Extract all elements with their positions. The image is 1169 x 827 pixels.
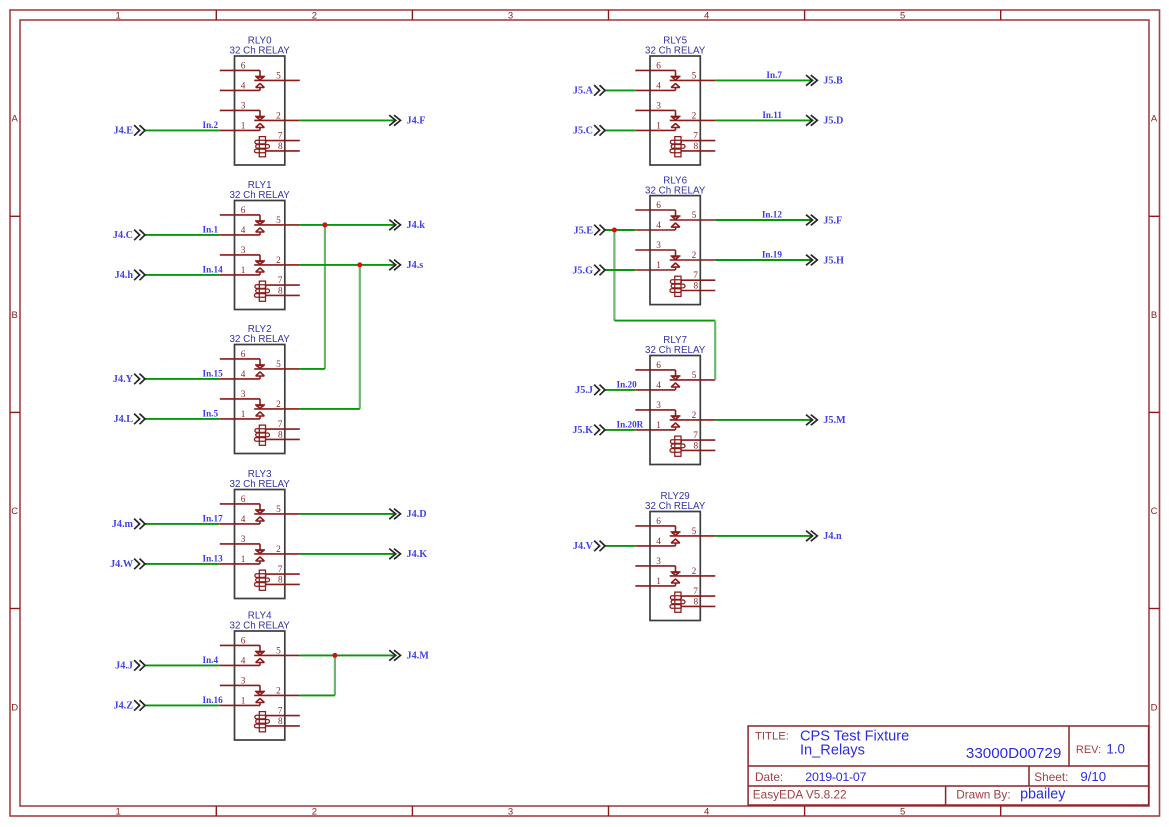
svg-text:3: 3 [656, 401, 661, 411]
svg-text:In.20R: In.20R [617, 419, 644, 429]
svg-text:J4.h: J4.h [115, 270, 134, 281]
relay RLY4 32 Ch RELAY [220, 611, 300, 740]
RLY6 pin 5 common [670, 219, 716, 221]
port J5.D (output) [806, 115, 843, 127]
RLY29 coil [675, 592, 681, 612]
svg-text:7: 7 [278, 565, 283, 575]
RLY0 pin 6 [220, 69, 260, 71]
svg-text:3: 3 [656, 557, 661, 567]
RLY0 pin 8 [266, 150, 299, 152]
RLY6 body box [650, 196, 700, 305]
port J4.n (output) [806, 531, 842, 543]
RLY4 NC contact arrow [255, 690, 265, 692]
svg-text:J4.m: J4.m [112, 519, 134, 530]
RLY5 pin 1 [635, 129, 675, 131]
port J4.D (output) [389, 509, 426, 521]
wire net J4.K from RLY3 pin 2 [300, 553, 396, 555]
RLY2 pin 1 [220, 418, 260, 420]
RLY1 pin 4 [220, 234, 260, 236]
svg-text:8: 8 [694, 282, 699, 292]
svg-text:J5.A: J5.A [573, 86, 594, 97]
svg-text:In.15: In.15 [203, 368, 224, 378]
wire In.1 from J4.C to RLY1 pin 4 [145, 234, 220, 236]
port J4.W (input) [110, 559, 145, 571]
svg-text:3: 3 [656, 241, 661, 251]
RLY7 body box [650, 356, 700, 465]
RLY4 pin 1 [220, 704, 260, 706]
port J4.E (input) [113, 125, 145, 137]
svg-text:J5.K: J5.K [572, 425, 593, 436]
svg-text:2: 2 [276, 400, 281, 410]
RLY1 coil [259, 281, 265, 301]
RLY3 NC contact arrow [255, 509, 265, 511]
relay RLY29 32 Ch RELAY [635, 491, 715, 620]
RLY6 coil [675, 276, 681, 296]
RLY0 coil [259, 137, 265, 157]
svg-text:7: 7 [278, 707, 283, 717]
wire net J4.M stub at RLY4 pin 2 [300, 694, 335, 696]
RLY7 NC contact arrow [671, 375, 681, 377]
RLY7 pin 4 [635, 389, 675, 391]
svg-text:4: 4 [656, 81, 661, 91]
RLY7 pin 8 [682, 449, 715, 451]
svg-text:7: 7 [693, 431, 698, 441]
svg-text:C: C [11, 506, 18, 517]
RLY4 NO contact arrow [256, 658, 265, 662]
RLY1 pin 5 common [254, 224, 300, 226]
port J5.C (input) [573, 125, 605, 137]
RLY6 pin 1 [635, 269, 675, 271]
RLY4 pin 5 common [254, 654, 300, 656]
svg-text:5: 5 [900, 807, 905, 818]
RLY5 coil [675, 137, 681, 157]
RLY2 NO contact arrow [256, 372, 265, 376]
svg-text:2019-01-07: 2019-01-07 [805, 770, 866, 784]
svg-text:In.2: In.2 [203, 120, 219, 130]
RLY3 pin 5 common [254, 513, 300, 515]
wire J5.C to RLY5 pin 1 [605, 129, 635, 131]
port J5.B (output) [806, 75, 843, 87]
RLY4 coil [259, 712, 265, 732]
svg-text:J5.B: J5.B [823, 76, 843, 87]
svg-text:2: 2 [692, 411, 697, 421]
RLY0 pin 2 common [254, 119, 300, 121]
RLY29 NC contact arrow [671, 571, 681, 573]
svg-text:In.4: In.4 [203, 655, 219, 665]
RLY29 pin 6 [635, 525, 675, 527]
svg-text:3: 3 [656, 101, 661, 111]
wire net In.7 from RLY5 pin 5 [715, 79, 812, 81]
svg-text:In.12: In.12 [762, 210, 783, 220]
RLY7 pin 1 [635, 429, 675, 431]
svg-text:5: 5 [692, 371, 697, 381]
svg-text:5: 5 [276, 646, 281, 656]
svg-text:2: 2 [276, 686, 281, 696]
svg-text:D: D [11, 703, 18, 714]
RLY4 NO contact arrow [256, 698, 265, 702]
svg-text:1: 1 [241, 121, 246, 131]
relay RLY7 32 Ch RELAY [635, 335, 715, 464]
RLY6 pin 7 [682, 279, 716, 281]
svg-text:7: 7 [278, 420, 283, 430]
svg-text:7: 7 [278, 132, 283, 142]
frame row tick (left) [10, 608, 20, 610]
svg-text:6: 6 [241, 350, 246, 360]
svg-text:In.1: In.1 [203, 224, 219, 234]
svg-text:3: 3 [241, 101, 246, 111]
wire net J4.D from RLY3 pin 5 [300, 513, 396, 515]
port J4.J (input) [115, 660, 145, 672]
RLY4 pin 3 [220, 684, 260, 686]
RLY1 pin 6 [220, 214, 260, 216]
frame column tick (bottom) [804, 806, 806, 816]
RLY3 NO contact arrow [256, 557, 265, 561]
svg-text:6: 6 [241, 61, 246, 71]
RLY2 NC contact arrow [255, 404, 265, 406]
svg-text:8: 8 [278, 430, 283, 440]
frame column tick (top) [1000, 10, 1002, 20]
svg-text:J4.n: J4.n [823, 531, 842, 542]
svg-text:4: 4 [241, 370, 246, 380]
svg-text:8: 8 [278, 286, 283, 296]
svg-text:7: 7 [278, 276, 283, 286]
RLY1 pin 2 common [254, 264, 300, 266]
port J5.E (input) [573, 225, 605, 237]
svg-text:5: 5 [276, 505, 281, 515]
svg-text:3: 3 [241, 390, 246, 400]
svg-text:7: 7 [693, 132, 698, 142]
wire net J4.k stub at RLY2 pin 5 [300, 368, 325, 370]
frame row tick (left) [10, 411, 20, 413]
svg-text:J4.J: J4.J [115, 661, 133, 672]
svg-text:4: 4 [656, 221, 661, 231]
wire net J4.F from RLY0 pin 2 [300, 119, 396, 121]
RLY3 pin 7 [266, 573, 300, 575]
wire In.4 from J4.J to RLY4 pin 4 [145, 664, 220, 666]
RLY5 pin 7 [682, 140, 716, 142]
RLY6 pin 3 [635, 249, 675, 251]
svg-text:In.14: In.14 [203, 264, 224, 274]
RLY3 pin 1 [220, 563, 260, 565]
RLY1 pin 1 [220, 274, 260, 276]
RLY29 pin 7 [682, 595, 716, 597]
svg-text:8: 8 [278, 717, 283, 727]
wire J4.V to RLY29 pin 4 [605, 545, 635, 547]
svg-text:1: 1 [241, 555, 246, 565]
svg-text:J5.M: J5.M [823, 415, 846, 426]
svg-text:J4.K: J4.K [407, 549, 428, 560]
svg-text:32 Ch RELAY: 32 Ch RELAY [230, 190, 291, 201]
svg-text:4: 4 [241, 81, 246, 91]
RLY5 pin 4 [635, 89, 675, 91]
RLY7 pin 6 [635, 369, 675, 371]
RLY29 NC contact arrow [671, 531, 681, 533]
title block [748, 726, 1149, 805]
port J4.k (output) [389, 220, 425, 232]
RLY4 pin 2 common [254, 694, 300, 696]
svg-text:1: 1 [241, 266, 246, 276]
RLY5 pin 2 common [670, 119, 716, 121]
svg-text:J5.D: J5.D [823, 116, 843, 127]
svg-text:J4.M: J4.M [407, 651, 430, 662]
svg-text:8: 8 [694, 142, 699, 152]
RLY7 pin 3 [635, 409, 675, 411]
svg-text:TITLE:: TITLE: [755, 731, 789, 743]
RLY3 NO contact arrow [256, 517, 265, 521]
RLY3 body box [235, 490, 285, 599]
RLY1 NO contact arrow [256, 228, 265, 232]
RLY5 pin 6 [635, 69, 675, 71]
svg-text:J5.F: J5.F [823, 215, 842, 226]
RLY3 NC contact arrow [255, 549, 265, 551]
RLY29 NO contact arrow [671, 579, 680, 583]
wire In.16 from J4.Z to RLY4 pin 1 [145, 704, 220, 706]
wire net J5.E vertical to RLY7 pin 5 [714, 321, 716, 380]
frame column tick (top) [608, 10, 610, 20]
wire net J5.E vertical drop [613, 230, 615, 321]
svg-text:EasyEDA V5.8.22: EasyEDA V5.8.22 [753, 788, 847, 802]
wire J5.G to RLY6 pin 1 [605, 269, 635, 271]
svg-text:1: 1 [241, 410, 246, 420]
RLY0 NO contact arrow [256, 83, 265, 87]
svg-text:32 Ch RELAY: 32 Ch RELAY [645, 501, 706, 512]
RLY5 NO contact arrow [671, 83, 680, 87]
wire In.14 from J4.h to RLY1 pin 1 [145, 274, 220, 276]
svg-text:32 Ch RELAY: 32 Ch RELAY [645, 46, 706, 57]
svg-text:In.16: In.16 [203, 695, 224, 705]
RLY3 pin 3 [220, 543, 260, 545]
RLY29 NO contact arrow [671, 539, 680, 543]
RLY7 NC contact arrow [671, 415, 681, 417]
port J4.L (input) [113, 414, 145, 426]
wire net J4.k from RLY1 pin 5 [300, 224, 396, 226]
wire net J5.E horizontal run [614, 320, 715, 322]
svg-text:32 Ch RELAY: 32 Ch RELAY [645, 345, 706, 356]
RLY1 NC contact arrow [255, 260, 265, 262]
RLY5 pin 8 [682, 150, 715, 152]
RLY1 pin 7 [266, 284, 300, 286]
junction J5.E [612, 228, 617, 233]
RLY4 pin 6 [220, 644, 260, 646]
frame row tick (right) [1149, 608, 1160, 610]
svg-text:1: 1 [656, 261, 661, 271]
RLY1 body box [235, 201, 285, 310]
svg-text:8: 8 [694, 441, 699, 451]
svg-text:32 Ch RELAY: 32 Ch RELAY [230, 46, 291, 57]
wire net J4.M from RLY4 pin 5 [300, 654, 396, 656]
svg-text:6: 6 [241, 206, 246, 216]
RLY2 pin 7 [266, 428, 300, 430]
RLY4 pin 7 [266, 715, 300, 717]
RLY1 NO contact arrow [256, 268, 265, 272]
frame column tick (bottom) [1000, 806, 1002, 816]
port J4.V (input) [573, 541, 605, 553]
svg-text:8: 8 [694, 597, 699, 607]
RLY5 NC contact arrow [671, 75, 681, 77]
svg-text:B: B [12, 310, 18, 321]
RLY29 body box [650, 512, 700, 621]
wire In.13 from J4.W to RLY3 pin 1 [145, 563, 220, 565]
port J5.M (output) [806, 415, 846, 427]
port J4.Z (input) [113, 700, 145, 712]
junction J4.k [322, 222, 327, 227]
svg-text:D: D [1151, 703, 1158, 714]
svg-text:pbailey: pbailey [1020, 787, 1066, 803]
svg-text:32 Ch RELAY: 32 Ch RELAY [230, 334, 291, 345]
svg-text:9/10: 9/10 [1080, 769, 1106, 784]
svg-text:5: 5 [692, 211, 697, 221]
port J5.H (output) [806, 255, 844, 267]
RLY29 pin 2 common [670, 575, 716, 577]
relay RLY0 32 Ch RELAY [220, 36, 300, 165]
RLY3 pin 4 [220, 523, 260, 525]
svg-text:33000D00729: 33000D00729 [966, 745, 1061, 762]
wire net J4.k vertical to RLY2 pin 5 [324, 225, 326, 369]
RLY5 NC contact arrow [671, 115, 681, 117]
wire In.2 from J4.E to RLY0 pin 1 [145, 129, 220, 131]
svg-text:1: 1 [116, 807, 121, 818]
svg-text:7: 7 [693, 271, 698, 281]
relay RLY5 32 Ch RELAY [635, 36, 715, 165]
RLY0 NO contact arrow [256, 123, 265, 127]
svg-text:J5.E: J5.E [573, 225, 593, 236]
wire net J4.s stub at RLY2 pin 2 [300, 408, 360, 410]
junction J4.M [332, 653, 337, 658]
wire J5.E to RLY6 pin 4 [605, 229, 635, 231]
relay RLY1 32 Ch RELAY [220, 180, 300, 309]
RLY2 NC contact arrow [255, 364, 265, 366]
junction J4.s [357, 262, 362, 267]
svg-text:J4.k: J4.k [407, 220, 426, 231]
svg-text:32 Ch RELAY: 32 Ch RELAY [230, 621, 291, 632]
svg-text:J4.D: J4.D [407, 509, 427, 520]
RLY0 pin 4 [220, 89, 260, 91]
RLY0 pin 3 [220, 109, 260, 111]
wire In.20 from J5.J to RLY7 pin 4 [605, 389, 635, 391]
svg-text:5: 5 [900, 10, 905, 21]
wire In.17 from J4.m to RLY3 pin 4 [145, 523, 220, 525]
svg-text:1: 1 [656, 421, 661, 431]
svg-text:J5.C: J5.C [573, 126, 593, 137]
svg-text:C: C [1151, 506, 1158, 517]
svg-text:2: 2 [276, 545, 281, 555]
svg-text:2: 2 [312, 10, 317, 21]
relay RLY3 32 Ch RELAY [220, 469, 300, 598]
wire net In.12 from RLY6 pin 5 [715, 219, 812, 221]
svg-text:J4.Z: J4.Z [113, 701, 133, 712]
RLY4 NC contact arrow [255, 650, 265, 652]
RLY2 pin 5 common [254, 368, 300, 370]
svg-text:4: 4 [241, 515, 246, 525]
svg-text:2: 2 [692, 251, 697, 261]
wire net J4.M vertical to RLY4 pin 2 [334, 655, 336, 695]
RLY2 body box [235, 345, 285, 454]
svg-text:4: 4 [656, 381, 661, 391]
svg-text:J4.L: J4.L [113, 414, 133, 425]
svg-text:2: 2 [692, 111, 697, 121]
svg-text:6: 6 [241, 636, 246, 646]
svg-text:In.13: In.13 [203, 553, 224, 563]
svg-text:Sheet:: Sheet: [1034, 770, 1068, 784]
RLY7 coil [675, 436, 681, 456]
RLY0 body box [235, 56, 285, 165]
frame column tick (bottom) [608, 806, 610, 816]
RLY5 pin 3 [635, 109, 675, 111]
RLY7 pin 5 common [670, 379, 716, 381]
port J5.G (input) [572, 265, 605, 277]
svg-text:In_Relays: In_Relays [800, 743, 865, 759]
RLY3 coil [259, 570, 265, 590]
RLY4 pin 4 [220, 664, 260, 666]
frame row tick (right) [1149, 411, 1160, 413]
svg-text:5: 5 [276, 360, 281, 370]
svg-text:Drawn By:: Drawn By: [956, 788, 1010, 802]
svg-text:In.17: In.17 [203, 513, 224, 523]
wire net J4.s vertical to RLY2 pin 2 [359, 265, 361, 409]
svg-text:3: 3 [508, 10, 513, 21]
frame column tick (bottom) [411, 806, 413, 816]
RLY0 NC contact arrow [255, 115, 265, 117]
RLY2 pin 2 common [254, 408, 300, 410]
svg-text:2: 2 [276, 111, 281, 121]
RLY29 pin 8 [682, 605, 715, 607]
svg-text:4: 4 [704, 10, 709, 21]
svg-text:J4.V: J4.V [573, 541, 594, 552]
svg-text:J4.Y: J4.Y [113, 374, 134, 385]
svg-text:5: 5 [276, 71, 281, 81]
svg-text:5: 5 [692, 527, 697, 537]
svg-text:5: 5 [276, 216, 281, 226]
RLY6 pin 8 [682, 290, 715, 292]
svg-text:1: 1 [116, 10, 121, 21]
port J5.J (input) [575, 385, 605, 397]
svg-text:6: 6 [241, 495, 246, 505]
RLY29 pin 4 [635, 545, 675, 547]
RLY3 pin 8 [266, 583, 299, 585]
wire In.5 from J4.L to RLY2 pin 1 [145, 418, 220, 420]
svg-text:32 Ch RELAY: 32 Ch RELAY [230, 479, 291, 490]
svg-text:In.11: In.11 [762, 110, 782, 120]
wire In.20R from J5.K to RLY7 pin 1 [605, 429, 635, 431]
frame column tick (bottom) [215, 806, 217, 816]
RLY7 pin 7 [682, 439, 716, 441]
svg-text:3: 3 [241, 676, 246, 686]
svg-text:4: 4 [241, 226, 246, 236]
svg-text:In.19: In.19 [762, 250, 783, 260]
RLY1 NC contact arrow [255, 220, 265, 222]
svg-text:8: 8 [278, 142, 283, 152]
svg-text:B: B [1151, 310, 1157, 321]
RLY7 NO contact arrow [671, 423, 680, 427]
RLY0 pin 5 common [254, 79, 300, 81]
RLY6 NO contact arrow [671, 223, 680, 227]
svg-text:In.5: In.5 [203, 408, 219, 418]
RLY4 body box [235, 631, 285, 740]
port J5.A (input) [573, 85, 605, 97]
RLY2 coil [259, 425, 265, 445]
port J4.s (output) [389, 260, 423, 272]
relay RLY2 32 Ch RELAY [220, 324, 300, 453]
RLY7 pin 2 common [670, 419, 716, 421]
RLY3 pin 6 [220, 503, 260, 505]
svg-text:J4.s: J4.s [407, 260, 424, 271]
svg-text:In.7: In.7 [766, 70, 782, 80]
RLY4 pin 8 [266, 725, 299, 727]
svg-text:J4.C: J4.C [113, 230, 133, 241]
svg-text:1: 1 [241, 696, 246, 706]
frame column tick (top) [215, 10, 217, 20]
wire J5.A to RLY5 pin 4 [605, 89, 635, 91]
